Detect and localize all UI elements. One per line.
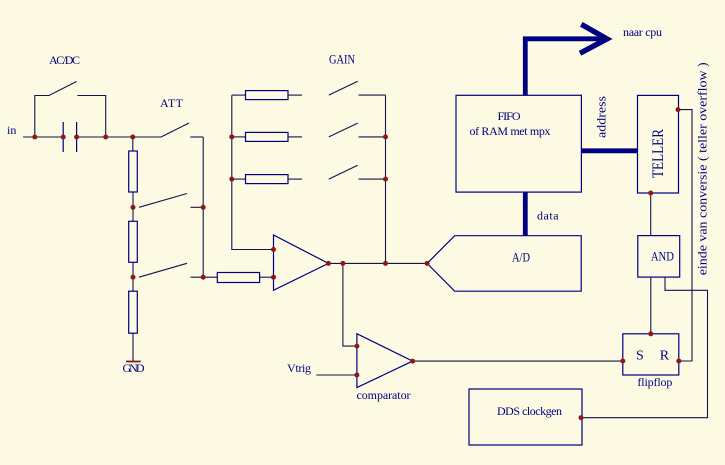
wire ATT S1 fixed contact — [190, 136, 203, 138]
wire comparator branch — [343, 263, 357, 346]
svg-text:flipflop: flipflop — [637, 375, 672, 389]
svg-text:AC/DC: AC/DC — [49, 53, 80, 67]
TELLER block — [638, 95, 679, 193]
node dot comparator in+ — [354, 344, 359, 349]
svg-text:naar cpu: naar cpu — [623, 25, 662, 39]
node dot flipflop S — [620, 359, 625, 364]
svg-text:Vtrig: Vtrig — [287, 361, 311, 375]
svg-text:FIFO: FIFO — [498, 109, 521, 123]
resistor Rg2 — [246, 132, 289, 141]
wire main input y=137 left of capacitor — [23, 136, 63, 138]
node dot TELLER overflow — [676, 107, 681, 112]
svg-text:S: S — [636, 349, 644, 364]
node dot TELLER bottom — [648, 191, 653, 196]
resistor R1 — [129, 151, 138, 192]
wire op-amp output — [328, 262, 427, 264]
svg-text:einde van conversie ( teller o: einde van conversie ( teller overflow ) — [695, 62, 710, 275]
wire GAIN row1 fixed contact — [359, 94, 386, 96]
wire TELLER overflow to flipflop R — [678, 110, 692, 361]
wire main input y=137 right of capacitor — [77, 136, 161, 138]
svg-text:TELLER: TELLER — [650, 129, 667, 178]
wire chain R2-R3 — [132, 262, 134, 291]
svg-text:DDS clockgen: DDS clockgen — [497, 404, 562, 418]
svg-text:GAIN: GAIN — [329, 52, 355, 67]
node dot GAIN bus junction — [383, 261, 388, 266]
wire ATT bus vertical — [202, 137, 204, 277]
svg-text:A/D: A/D — [512, 250, 530, 265]
wire AND to DDS clock — [582, 277, 708, 418]
node dot op-amp in+ — [271, 247, 276, 252]
svg-text:R: R — [660, 349, 670, 364]
wire GAIN right bus — [385, 95, 387, 263]
node dot op-amp out — [326, 261, 331, 266]
wire ATT S2 fixed contact — [191, 206, 204, 208]
wire chain R1-R2 — [132, 192, 134, 221]
node dot chain S2 — [131, 205, 136, 210]
bus data FIFO to A/D — [523, 192, 528, 236]
svg-text:of RAM met mpx: of RAM met mpx — [470, 124, 551, 138]
svg-text:AND: AND — [651, 249, 674, 264]
node dot comparator branch — [340, 261, 345, 266]
wire GAIN row3 left — [232, 178, 246, 180]
capacitor C1 plates — [63, 122, 76, 152]
svg-text:address: address — [594, 96, 609, 138]
op-amp U1 — [274, 235, 329, 290]
switch GAIN S3 blade — [329, 165, 358, 179]
node dot main/bypass left — [32, 135, 37, 140]
switch ATT S3 blade — [139, 263, 187, 277]
switch GAIN S2 blade — [329, 123, 358, 137]
wire GAIN row2 fixed contact — [359, 136, 386, 138]
wire ATT chain top — [132, 137, 134, 151]
wire comparator output to flipflop S — [413, 360, 623, 362]
node dot op-amp in- — [271, 275, 276, 280]
node dot ATT chain top — [130, 135, 135, 140]
node dot flipflop top — [648, 331, 653, 336]
node dot GAIN left row3 — [229, 177, 234, 182]
FIFO block — [456, 95, 581, 192]
node dot A/D input — [425, 261, 430, 266]
resistor R4 input — [217, 273, 259, 283]
svg-text:GND: GND — [123, 361, 145, 375]
bus address FIFO to TELLER — [581, 148, 637, 153]
wire GAIN row2 left — [232, 136, 246, 138]
node dot cap right — [74, 135, 79, 140]
wire GAIN left bus — [232, 95, 274, 249]
node dot DDS output — [579, 415, 584, 420]
switch ATT S1 blade — [161, 123, 189, 137]
wire R4 to op-amp — [260, 276, 274, 278]
wire GAIN row1 left — [232, 94, 246, 96]
wire GAIN row3 mid — [288, 178, 302, 180]
wire TELLER to AND — [650, 193, 652, 236]
node dot comparator in- — [354, 373, 359, 378]
arrowhead naar cpu — [580, 24, 607, 53]
node dot bus S3 — [201, 275, 206, 280]
node dot bus S2 — [201, 205, 206, 210]
resistor R2 — [129, 221, 138, 262]
AND block — [638, 236, 680, 278]
comparator U2 — [357, 334, 413, 388]
node dot GAIN right row2 — [383, 134, 388, 139]
node dot chain S3 — [131, 275, 136, 280]
wire GAIN row2 mid — [288, 136, 302, 138]
ground — [126, 361, 141, 363]
switch ATT S2 blade — [139, 194, 187, 208]
A/D converter — [427, 236, 581, 292]
wire GAIN row3 fixed contact — [359, 178, 386, 180]
bus FIFO to cpu — [525, 39, 604, 96]
switch AC/DC bypass branch — [35, 82, 106, 138]
node dot bypass right — [103, 135, 108, 140]
wire R3 to ground — [132, 333, 134, 361]
svg-text:in: in — [7, 123, 16, 137]
node dot cap left — [61, 135, 66, 140]
DDS clockgen block — [469, 389, 582, 445]
svg-text:comparator: comparator — [357, 388, 411, 402]
wire Vtrig — [316, 374, 357, 376]
wire ATT S3 fixed contact — [191, 276, 218, 278]
node dot flipflop R — [676, 359, 681, 364]
wire AND output to flipflop — [650, 277, 652, 334]
node dot GAIN right row3 — [383, 177, 388, 182]
flipflop block — [623, 334, 679, 375]
node dot GAIN left row2 — [229, 134, 234, 139]
switch GAIN S1 blade — [329, 81, 358, 95]
resistor R3 — [129, 291, 138, 333]
svg-text:ATT: ATT — [160, 96, 184, 110]
resistor Rg3 — [246, 175, 289, 184]
resistor Rg1 — [246, 91, 289, 100]
wire GAIN row1 mid — [288, 94, 302, 96]
svg-text:data: data — [537, 209, 559, 223]
node dot comparator out — [410, 359, 415, 364]
